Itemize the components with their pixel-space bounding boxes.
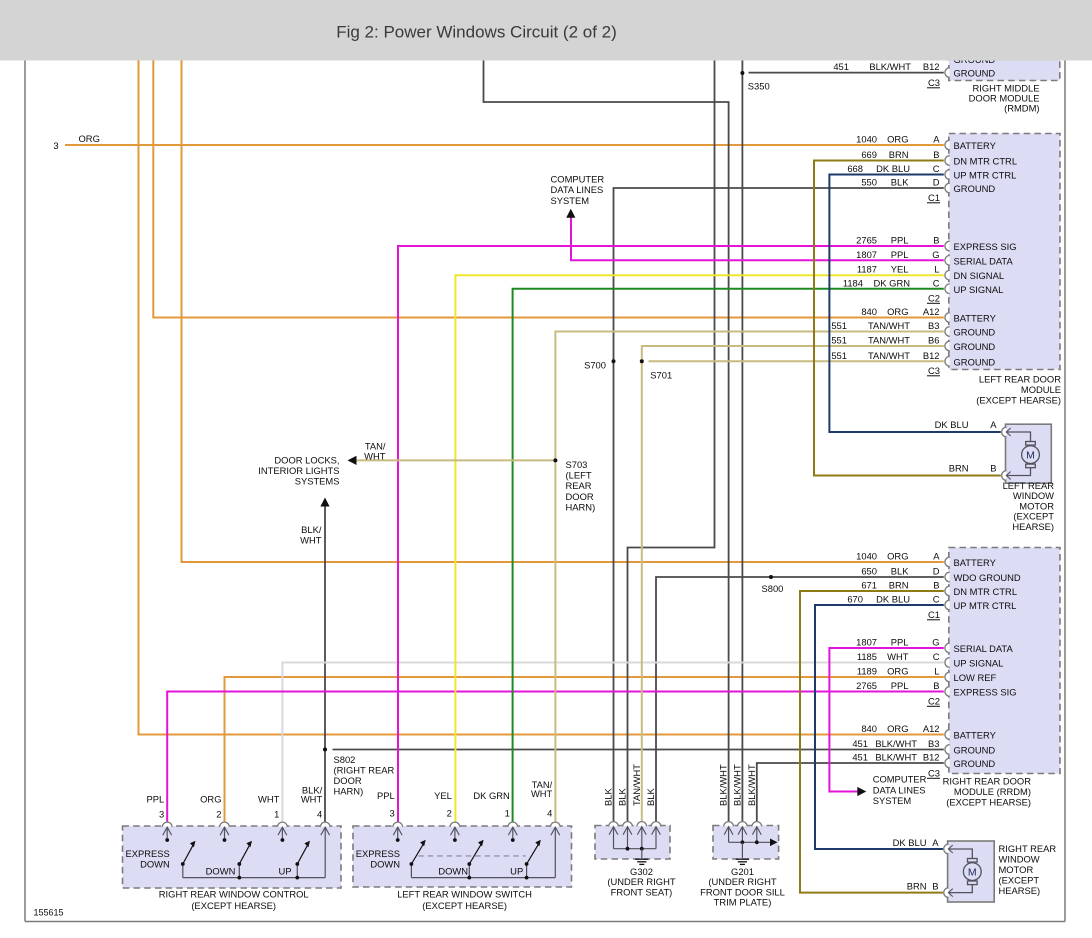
splice S802	[323, 748, 327, 752]
RRDM pin arc	[945, 730, 950, 740]
svg-text:REAR: REAR	[566, 480, 592, 491]
svg-text:BLK/WHT: BLK/WHT	[731, 764, 742, 806]
wire 451 BLK/WHT RRDM pin B12 into G201	[757, 763, 944, 826]
svg-text:A: A	[990, 419, 997, 430]
svg-text:INTERIOR LIGHTS: INTERIOR LIGHTS	[258, 465, 339, 476]
svg-text:BLK: BLK	[891, 177, 909, 188]
svg-text:ORG: ORG	[887, 306, 908, 317]
svg-text:HARN): HARN)	[334, 786, 364, 797]
svg-text:DATA LINES: DATA LINES	[551, 184, 604, 195]
wire 1187 YEL LRDM pin L to switch pin 2	[455, 275, 943, 826]
svg-text:B: B	[990, 463, 996, 474]
switch box1 common bus	[183, 877, 325, 879]
svg-text:DK BLU: DK BLU	[893, 837, 927, 848]
svg-text:UP SIGNAL: UP SIGNAL	[954, 658, 1004, 669]
diagram frame bottom border	[25, 921, 1065, 923]
svg-text:1: 1	[274, 809, 279, 820]
svg-text:WHT: WHT	[364, 451, 386, 462]
svg-text:S703: S703	[566, 459, 588, 470]
svg-text:M: M	[968, 866, 977, 878]
svg-text:2765: 2765	[856, 235, 877, 246]
svg-text:S350: S350	[748, 81, 770, 92]
svg-text:BATTERY: BATTERY	[954, 313, 997, 324]
LRDM pin arc	[945, 256, 950, 266]
svg-text:PPL: PPL	[891, 249, 909, 260]
svg-text:B3: B3	[928, 738, 939, 749]
RRDM pin arc	[945, 557, 950, 567]
svg-text:155615: 155615	[34, 908, 64, 918]
switch box1 bus junction dots	[237, 876, 241, 880]
svg-text:DOWN: DOWN	[140, 858, 170, 869]
svg-text:PPL: PPL	[377, 790, 395, 801]
wire 551 TAN/WHT LRDM B3 through S703 to switch pin 4	[555, 332, 943, 827]
LRDM pin arc	[945, 140, 950, 150]
svg-text:3: 3	[159, 809, 164, 820]
svg-text:BLK/WHT: BLK/WHT	[869, 61, 911, 72]
right rear window motor pin A	[944, 844, 949, 854]
svg-text:1040: 1040	[856, 551, 877, 562]
svg-text:C3: C3	[928, 77, 940, 88]
svg-text:WHT: WHT	[300, 535, 322, 546]
svg-text:Fig 2: Power Windows Circuit (: Fig 2: Power Windows Circuit (2 of 2)	[336, 23, 617, 42]
switch box1 entry bumps	[162, 822, 172, 827]
switch box2 pivot stubs	[410, 864, 412, 878]
svg-text:RIGHT REAR DOOR: RIGHT REAR DOOR	[943, 776, 1032, 787]
svg-text:DK BLU: DK BLU	[876, 594, 910, 605]
svg-text:SYSTEM: SYSTEM	[873, 795, 912, 806]
left rear window motor M circle	[1022, 446, 1040, 464]
svg-text:B: B	[933, 235, 939, 246]
splice S350	[740, 71, 744, 75]
svg-text:S802: S802	[334, 754, 356, 765]
right rear window motor brush bottom	[968, 881, 978, 885]
wire 650 BLK RRDM pin D through S800 to G302	[656, 577, 944, 826]
wire 550 BLK LRDM pin D through S700 to G302	[614, 188, 944, 826]
svg-text:BRN: BRN	[907, 881, 927, 892]
svg-text:UP MTR CTRL: UP MTR CTRL	[954, 170, 1017, 181]
svg-text:DK BLU: DK BLU	[935, 419, 969, 430]
RRDM pin arc	[945, 672, 950, 682]
svg-text:TAN/WHT: TAN/WHT	[631, 764, 642, 806]
svg-text:BLK/: BLK/	[301, 524, 322, 535]
wire 451 BLK/WHT from top to corner into G201	[484, 61, 729, 826]
switch box1 switch blades	[183, 845, 194, 864]
left rear window motor brush top	[1026, 442, 1036, 446]
switch box2 entry arrows	[393, 827, 402, 835]
svg-text:LEFT REAR DOOR: LEFT REAR DOOR	[979, 374, 1061, 385]
svg-text:UP MTR CTRL: UP MTR CTRL	[954, 600, 1017, 611]
svg-text:C3: C3	[928, 768, 940, 779]
svg-text:668: 668	[847, 163, 863, 174]
svg-text:GROUND: GROUND	[954, 183, 996, 194]
svg-text:YEL: YEL	[434, 790, 452, 801]
wire 551 TAN/WHT LRDM B12 from S701	[649, 360, 944, 362]
svg-text:A12: A12	[923, 723, 940, 734]
svg-text:HEARSE): HEARSE)	[1012, 521, 1054, 532]
wire 2765 PPL LRDM pin B to left rear switch pin 3	[398, 246, 944, 826]
G201 ground symbol	[736, 858, 749, 860]
splice S701	[640, 359, 644, 363]
svg-text:B: B	[933, 680, 939, 691]
svg-text:UP: UP	[278, 866, 291, 877]
svg-text:GROUND: GROUND	[954, 758, 996, 769]
right rear window motor brush top	[968, 859, 978, 863]
svg-text:A: A	[932, 837, 939, 848]
svg-text:C1: C1	[928, 609, 940, 620]
svg-text:DN SIGNAL: DN SIGNAL	[954, 270, 1005, 281]
svg-text:COMPUTER: COMPUTER	[551, 174, 605, 185]
RRDM pin arc	[945, 758, 950, 768]
svg-text:ORG: ORG	[79, 133, 100, 144]
svg-text:B12: B12	[923, 752, 940, 763]
diagram frame left border	[24, 61, 26, 922]
svg-text:1184: 1184	[843, 277, 863, 288]
svg-text:4: 4	[547, 808, 552, 819]
svg-text:MODULE: MODULE	[1021, 384, 1061, 395]
svg-text:840: 840	[861, 723, 877, 734]
svg-text:(RMDM): (RMDM)	[1004, 103, 1039, 114]
svg-text:671: 671	[861, 580, 877, 591]
switch box2 pin4 riser	[554, 827, 556, 877]
svg-text:551: 551	[831, 335, 847, 346]
svg-text:S700: S700	[584, 359, 606, 370]
svg-text:840: 840	[861, 306, 877, 317]
G201 bus dots	[741, 840, 745, 844]
switch box1 pin4 riser	[324, 827, 326, 877]
G302 ground symbol	[635, 858, 648, 860]
switch box1 entry arrows	[163, 827, 172, 835]
svg-text:MODULE (RRDM): MODULE (RRDM)	[954, 786, 1031, 797]
svg-text:1: 1	[505, 808, 510, 819]
svg-text:BRN: BRN	[949, 463, 969, 474]
svg-text:LEFT REAR WINDOW SWITCH: LEFT REAR WINDOW SWITCH	[397, 889, 532, 900]
svg-text:650: 650	[861, 566, 877, 577]
svg-text:(LEFT: (LEFT	[566, 470, 592, 481]
svg-text:3: 3	[53, 140, 58, 151]
svg-text:EXPRESS SIG: EXPRESS SIG	[954, 687, 1017, 698]
svg-text:1040: 1040	[856, 134, 877, 145]
right rear window motor internal wiring	[949, 849, 973, 859]
svg-text:G: G	[932, 249, 939, 260]
svg-text:A: A	[933, 551, 940, 562]
svg-text:BRN: BRN	[889, 149, 909, 160]
svg-text:(EXCEPT HEARSE): (EXCEPT HEARSE)	[946, 797, 1031, 808]
svg-text:GROUND: GROUND	[954, 745, 996, 756]
G201 ground drop	[741, 842, 743, 858]
wire 1040 ORG page-ref 3 to LRDM pin A	[65, 144, 944, 146]
motor box left rear window motor	[1006, 424, 1052, 483]
svg-text:BLK: BLK	[891, 566, 909, 577]
svg-text:DK GRN: DK GRN	[874, 277, 910, 288]
svg-text:BATTERY: BATTERY	[954, 557, 997, 568]
wire 2765 PPL RRDM pin B to right rear control pin 3	[167, 692, 944, 827]
svg-text:RIGHT REAR: RIGHT REAR	[999, 843, 1057, 854]
splice S700	[612, 359, 616, 363]
wire 1185 WHT RRDM pin C to switch box pin 1	[282, 663, 943, 827]
left rear window motor pin A	[1002, 427, 1007, 437]
svg-text:WDO GROUND: WDO GROUND	[954, 572, 1021, 583]
svg-text:LOW REF: LOW REF	[954, 672, 997, 683]
ground splice box G302	[595, 826, 670, 860]
svg-text:C: C	[933, 651, 940, 662]
svg-text:GROUND: GROUND	[954, 327, 996, 338]
svg-text:1807: 1807	[856, 637, 877, 648]
LRDM pin arc	[945, 156, 950, 166]
svg-text:UP SIGNAL: UP SIGNAL	[954, 284, 1004, 295]
svg-text:550: 550	[861, 177, 877, 188]
svg-text:BLK: BLK	[617, 788, 628, 806]
LRDM pin arc	[945, 341, 950, 351]
RRDM pin arc	[945, 745, 950, 755]
right rear window motor M circle	[963, 863, 981, 881]
svg-text:GROUND: GROUND	[954, 356, 996, 367]
wire 451 BLK/WHT RRDM pin B3 to S802	[333, 749, 944, 751]
svg-text:ORG: ORG	[887, 666, 908, 677]
svg-text:TAN/WHT: TAN/WHT	[868, 320, 910, 331]
wire ORG vertical feed to RRDM A12	[139, 61, 944, 735]
svg-text:451: 451	[833, 61, 849, 72]
svg-text:G: G	[932, 637, 939, 648]
svg-text:D: D	[933, 566, 940, 577]
wire 551 TAN/WHT LRDM B6 to S701	[642, 346, 944, 826]
svg-text:RIGHT REAR WINDOW CONTROL: RIGHT REAR WINDOW CONTROL	[159, 889, 309, 900]
wire 668 DK BLU LRDM pin C to left rear window motor pin A	[829, 175, 1000, 433]
wire 1189 ORG RRDM pin L to switch box pin 2	[225, 677, 944, 826]
svg-text:1189: 1189	[857, 666, 877, 677]
svg-text:B6: B6	[928, 335, 939, 346]
arrow to computer data lines system bottom	[857, 787, 866, 796]
wire 1184 DK GRN LRDM pin C to switch pin 1	[513, 289, 944, 826]
RRDM pin arc	[945, 572, 950, 582]
svg-text:WHT: WHT	[258, 794, 280, 805]
svg-text:SERIAL DATA: SERIAL DATA	[954, 255, 1014, 266]
LRDM pin arc	[945, 270, 950, 280]
svg-text:SERIAL DATA: SERIAL DATA	[954, 643, 1014, 654]
wire 669 BRN LRDM pin B to left rear window motor pin B	[814, 161, 1001, 476]
wire BLK from top jog to G302	[628, 61, 715, 826]
svg-text:S800: S800	[762, 583, 784, 594]
svg-text:DK GRN: DK GRN	[473, 790, 509, 801]
svg-text:WHT: WHT	[301, 794, 323, 805]
svg-text:C: C	[933, 163, 940, 174]
svg-text:2765: 2765	[856, 680, 877, 691]
svg-text:ORG: ORG	[200, 794, 221, 805]
LRDM pin arc	[945, 284, 950, 294]
connector RMDM right middle door module box	[949, 44, 1060, 81]
wire ORG vertical feed to RRDM pin A	[182, 61, 944, 563]
svg-text:2: 2	[447, 808, 452, 819]
splice S800	[769, 575, 773, 579]
svg-text:WHT: WHT	[887, 651, 909, 662]
svg-text:PPL: PPL	[891, 637, 909, 648]
svg-text:551: 551	[831, 320, 847, 331]
svg-text:(EXCEPT HEARSE): (EXCEPT HEARSE)	[191, 900, 276, 911]
splice S703	[553, 458, 557, 462]
svg-text:BATTERY: BATTERY	[954, 140, 997, 151]
switch box right rear window control	[123, 826, 342, 888]
arrow to door locks interior lights systems BLK/WHT	[320, 498, 329, 507]
wire 1807 PPL RRDM pin G to computer data lines	[829, 648, 943, 792]
svg-text:B: B	[933, 580, 939, 591]
svg-text:FRONT SEAT): FRONT SEAT)	[611, 886, 673, 897]
svg-text:BLK/WHT: BLK/WHT	[875, 752, 917, 763]
left rear window motor brush bottom	[1026, 464, 1036, 468]
svg-text:DOOR: DOOR	[566, 491, 594, 502]
svg-text:A12: A12	[923, 306, 940, 317]
svg-text:2: 2	[216, 809, 221, 820]
switch box2 entry bumps	[393, 822, 403, 827]
RRDM pin arc	[945, 643, 950, 653]
left rear window motor pin B	[1002, 471, 1007, 481]
G302 bus dots	[626, 847, 630, 851]
switch box1 contact stems and dots	[166, 827, 168, 838]
RMDM pin arc B12	[945, 68, 950, 78]
diagram frame right border	[1064, 61, 1066, 922]
svg-text:(EXCEPT HEARSE): (EXCEPT HEARSE)	[422, 900, 507, 911]
LRDM pin arc	[945, 170, 950, 180]
RRDM pin arc	[945, 658, 950, 668]
G302 entry arrows and stems	[609, 827, 618, 835]
svg-text:(EXCEPT: (EXCEPT	[999, 875, 1040, 886]
svg-text:A: A	[933, 134, 940, 145]
svg-text:4: 4	[317, 809, 322, 820]
svg-text:BLK/WHT: BLK/WHT	[718, 764, 729, 806]
left rear window motor internal wiring	[1007, 432, 1031, 442]
svg-text:DOOR LOCKS,: DOOR LOCKS,	[274, 455, 339, 466]
switch box2 common bus	[411, 877, 555, 879]
switch box1 pivot stubs	[182, 864, 184, 878]
svg-text:ORG: ORG	[887, 551, 908, 562]
wire TAN/WHT S703 to door locks systems arrow	[356, 459, 555, 461]
svg-text:HARN): HARN)	[566, 501, 596, 512]
G302 ground drop	[641, 849, 643, 859]
svg-text:ORG: ORG	[887, 134, 908, 145]
RRDM pin arc	[945, 600, 950, 610]
svg-text:BLK/WHT: BLK/WHT	[875, 738, 917, 749]
G201 bus with continuation arrow	[729, 841, 772, 843]
svg-text:C2: C2	[928, 293, 940, 304]
svg-text:EXPRESS SIG: EXPRESS SIG	[954, 241, 1017, 252]
svg-text:TRIM PLATE): TRIM PLATE)	[714, 897, 772, 908]
svg-text:ORG: ORG	[887, 723, 908, 734]
LRDM pin arc	[945, 241, 950, 251]
svg-text:UP: UP	[510, 866, 523, 877]
connector RRDM right rear door module box	[949, 548, 1060, 774]
svg-text:GROUND: GROUND	[954, 341, 996, 352]
svg-text:DK BLU: DK BLU	[876, 163, 910, 174]
svg-text:D: D	[933, 177, 940, 188]
wire 451 BLK/WHT S350 to RMDM pin B12	[749, 72, 944, 74]
switch box2 switch blades	[411, 844, 423, 864]
svg-text:C: C	[933, 277, 940, 288]
svg-text:L: L	[934, 264, 939, 275]
connector LRDM left rear door module box	[949, 134, 1060, 370]
svg-text:TAN/WHT: TAN/WHT	[868, 350, 910, 361]
title bar	[0, 0, 1092, 61]
svg-text:SYSTEMS: SYSTEMS	[295, 476, 340, 487]
svg-text:C: C	[933, 594, 940, 605]
wire ORG vertical feed to LRDM A12	[153, 61, 944, 318]
svg-text:1187: 1187	[857, 264, 877, 275]
svg-text:C3: C3	[928, 365, 940, 376]
svg-text:DOWN: DOWN	[206, 866, 236, 877]
svg-text:MOTOR: MOTOR	[999, 864, 1034, 875]
svg-text:B3: B3	[928, 320, 939, 331]
svg-text:L: L	[934, 666, 939, 677]
svg-text:WINDOW: WINDOW	[999, 854, 1040, 865]
svg-text:451: 451	[852, 752, 868, 763]
svg-text:B12: B12	[923, 350, 940, 361]
svg-text:551: 551	[831, 350, 847, 361]
svg-text:DATA LINES: DATA LINES	[873, 784, 926, 795]
wire 451 BLK/WHT S350 trunk to G201	[741, 61, 743, 826]
svg-text:BLK/WHT: BLK/WHT	[746, 764, 757, 806]
svg-text:GROUND: GROUND	[954, 68, 996, 79]
svg-text:1807: 1807	[856, 249, 877, 260]
svg-text:TAN/WHT: TAN/WHT	[868, 335, 910, 346]
motor box right rear window motor	[948, 841, 995, 902]
LRDM pin arc	[945, 183, 950, 193]
right rear window motor pin B	[944, 888, 949, 898]
arrow to door locks interior lights systems TAN/WHT	[348, 456, 357, 465]
ground splice box G201	[713, 826, 779, 860]
svg-text:(EXCEPT HEARSE): (EXCEPT HEARSE)	[976, 395, 1061, 406]
svg-text:1185: 1185	[857, 651, 877, 662]
LRDM pin arc	[945, 327, 950, 337]
svg-text:WHT: WHT	[531, 788, 553, 799]
svg-text:PPL: PPL	[891, 235, 909, 246]
svg-text:BRN: BRN	[889, 580, 909, 591]
svg-text:S701: S701	[650, 370, 672, 381]
svg-text:DN MTR CTRL: DN MTR CTRL	[954, 156, 1018, 167]
G201 entry bumps	[724, 822, 734, 827]
svg-text:451: 451	[852, 738, 868, 749]
arrow to computer data lines system top	[566, 209, 575, 218]
switch box2 contact stems and dots	[397, 827, 399, 838]
wire 670 DK BLU RRDM pin C to right rear window motor pin A	[815, 605, 944, 849]
svg-text:DOOR: DOOR	[334, 775, 362, 786]
svg-text:DOWN: DOWN	[438, 866, 468, 877]
switch box2 mechanical link dashed	[418, 855, 526, 857]
svg-text:BLK: BLK	[645, 788, 656, 806]
svg-text:3: 3	[389, 808, 394, 819]
G302 bus	[614, 848, 657, 850]
wire 1807 PPL LRDM pin G to computer data lines	[571, 217, 944, 260]
wire BLK/WHT door locks feed through S802 to switch pin 4	[324, 506, 326, 826]
G201 entry arrows and stems	[724, 827, 733, 835]
LRDM pin arc	[945, 357, 950, 367]
svg-text:PPL: PPL	[146, 794, 164, 805]
svg-text:C2: C2	[928, 696, 940, 707]
svg-text:YEL: YEL	[891, 264, 909, 275]
svg-text:B: B	[933, 149, 939, 160]
svg-text:669: 669	[861, 149, 877, 160]
svg-text:(RIGHT REAR: (RIGHT REAR	[334, 765, 395, 776]
svg-text:SYSTEM: SYSTEM	[551, 195, 590, 206]
svg-text:B12: B12	[923, 61, 940, 72]
svg-text:B: B	[932, 881, 938, 892]
svg-text:COMPUTER: COMPUTER	[873, 774, 927, 785]
wire 671 BRN RRDM pin B to right rear window motor pin B	[800, 591, 944, 893]
svg-text:DN MTR CTRL: DN MTR CTRL	[954, 586, 1018, 597]
svg-text:M: M	[1026, 449, 1035, 461]
RRDM pin arc	[945, 586, 950, 596]
svg-text:HEARSE): HEARSE)	[999, 885, 1041, 896]
svg-text:PPL: PPL	[891, 680, 909, 691]
svg-text:BLK: BLK	[603, 788, 614, 806]
RRDM pin arc	[945, 687, 950, 697]
switch box left rear window switch	[353, 826, 572, 887]
